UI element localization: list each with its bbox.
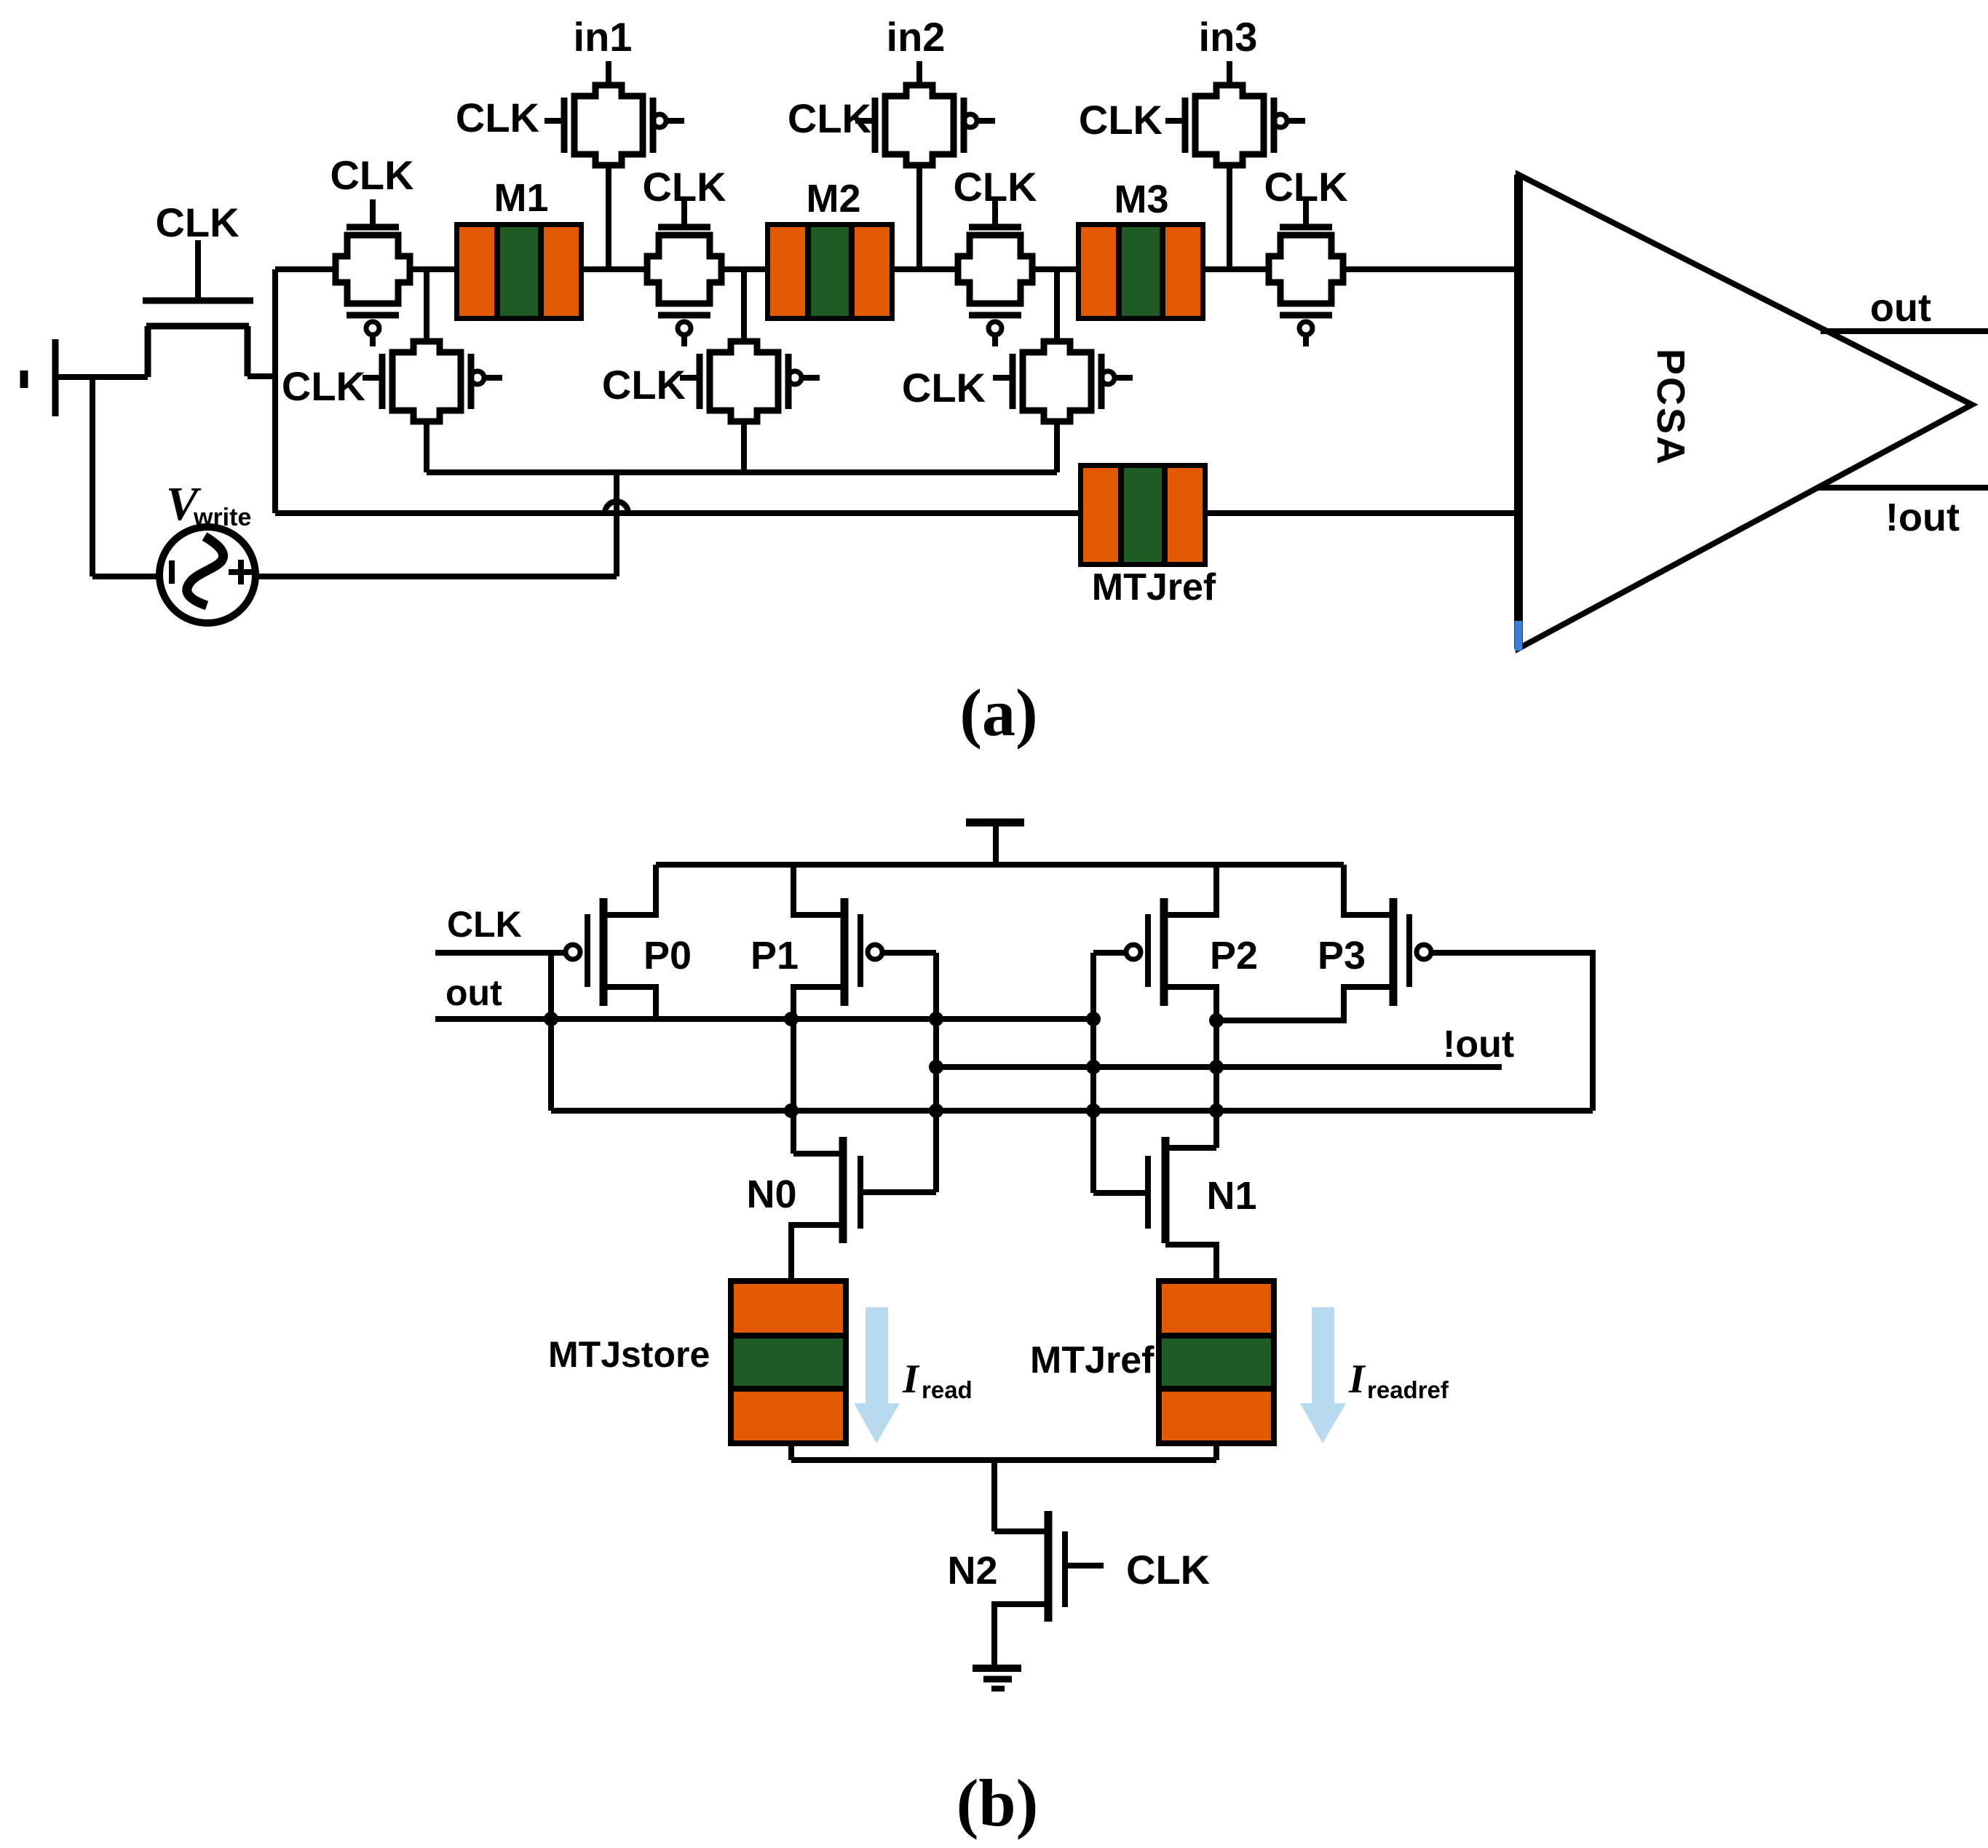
arrow Iread (blue) (854, 1307, 900, 1443)
wire net CLKbus (b bus3) (551, 1108, 1593, 1114)
svg-text:in2: in2 (887, 14, 946, 60)
wire riser P2/P3 drains to net !OUT (1213, 987, 1219, 1148)
svg-text:CLK: CLK (282, 363, 365, 409)
transistor P0 (PMOS, gate CLK) (566, 898, 603, 1006)
wire riser chain to lower pass gate LPG2 (741, 269, 747, 341)
blue mark on PCSA left edge (1515, 621, 1523, 651)
wire PG2 to M2 (721, 266, 765, 272)
wire N1 source lead to MTJref (1165, 1245, 1216, 1278)
svg-text:N0: N0 (746, 1173, 796, 1216)
svg-text:in3: in3 (1199, 14, 1258, 60)
wire tail bus (b) (791, 1457, 1216, 1463)
wire hop (net B over riser) (605, 501, 628, 513)
ground symbol (973, 1668, 1021, 1689)
label Vwrite (166, 477, 251, 531)
MTJ MTJstore (b) (728, 1278, 849, 1446)
wire LPG1 to net A (424, 421, 429, 472)
svg-text:P3: P3 (1318, 934, 1366, 977)
wire Vwrite plus lead (net C) (256, 574, 617, 579)
MTJ M3 (1076, 222, 1205, 321)
wire N0 drain lead (793, 1151, 843, 1157)
wire VDD rail (b) (656, 862, 1344, 868)
MTJ M1 (454, 222, 584, 321)
label Iread (902, 1357, 973, 1403)
wire N1 gate lead (1093, 1190, 1148, 1196)
pass gate LPG2 (CLK, lower row) (680, 341, 820, 421)
junction dots (b) (544, 1012, 1224, 1118)
svg-text:(b): (b) (957, 1766, 1038, 1840)
battery cell (left supply) (24, 339, 55, 416)
wire riser P1 gate / N0 gate (net !OUT) (933, 953, 939, 1192)
wire P3 gate feedback loop (1431, 953, 1593, 1111)
wire LPG3 to net A (1054, 421, 1060, 472)
power VDD symbol (966, 822, 1024, 865)
wire PG3 to M3 (1032, 266, 1076, 272)
svg-text:M1: M1 (494, 176, 548, 220)
svg-text:!out: !out (1885, 496, 1960, 539)
wire in1 stem (606, 61, 611, 85)
MTJ M2 (765, 222, 895, 321)
svg-text:CLK: CLK (456, 95, 539, 140)
svg-text:MTJref: MTJref (1030, 1339, 1155, 1381)
svg-text:write: write (193, 504, 251, 531)
svg-text:PCSA: PCSA (1649, 349, 1692, 467)
wire in2 stem (916, 61, 922, 85)
transistor N0 (NMOS, cross-coupled) (843, 1137, 860, 1243)
transistor P3 (PMOS, gate CLK) (1393, 898, 1431, 1006)
wire riser chain to lower pass gate LPG1 (424, 269, 429, 341)
wire P0 source lead to VDD rail (603, 865, 656, 915)
wire P3 drain lead to !OUT riser (1216, 987, 1393, 1020)
svg-text:I: I (1348, 1357, 1366, 1402)
svg-text:CLK: CLK (330, 152, 413, 198)
pass gate PG4 (CLK, series chain) (1269, 199, 1343, 346)
svg-text:(a): (a) (959, 675, 1037, 750)
pass gate PG2 (CLK, series chain) (647, 199, 721, 346)
wire N2 source lead (994, 1604, 1048, 1667)
svg-text:out: out (445, 972, 502, 1013)
MTJ MTJref (a) (1078, 463, 1208, 567)
wire riser chain to lower pass gate LPG3 (1054, 269, 1060, 341)
svg-text:CLK: CLK (155, 199, 239, 245)
svg-text:readref: readref (1367, 1376, 1449, 1403)
svg-text:CLK: CLK (642, 164, 726, 210)
pass gate LPG1 (CLK, lower row) (363, 341, 502, 421)
wire MTJref bottom to tail (1213, 1445, 1219, 1460)
wire PG1 to M1 (410, 266, 454, 272)
svg-text:out: out (1870, 286, 1931, 330)
svg-text:CLK: CLK (602, 362, 686, 408)
MTJ MTJref (b) (1156, 1278, 1277, 1446)
wire Vwrite minus lead (92, 574, 162, 579)
wire P1 gate to riser (882, 950, 936, 956)
pass gate LPG3 (CLK, lower row) (993, 341, 1133, 421)
svg-text:CLK: CLK (788, 95, 871, 141)
wire N2 drain lead (994, 1528, 1048, 1534)
svg-text:CLK: CLK (902, 365, 986, 411)
svg-text:!out: !out (1443, 1023, 1514, 1066)
wire P3 source lead to VDD rail (1344, 865, 1393, 915)
wire net B (to MTJref and PCSA) (275, 510, 1078, 516)
wire N0 source lead to MTJstore (791, 1225, 843, 1278)
svg-text:CLK: CLK (953, 164, 1037, 210)
svg-text:N2: N2 (947, 1549, 997, 1593)
voltage source Vwrite (159, 527, 256, 623)
wire node column (chain start down to net B) (272, 269, 278, 513)
pass gate TG-in3 (input in3, gated by CLK) (1165, 85, 1305, 165)
svg-text:N1: N1 (1206, 1174, 1256, 1218)
svg-text:MTJref: MTJref (1092, 566, 1216, 608)
wire riser P2 gate / N1 gate (net OUT) (1090, 953, 1096, 1193)
pass gate PG1 (CLK, series chain) (336, 199, 410, 346)
svg-text:read: read (922, 1376, 973, 1403)
wire LPG2 to net A (741, 421, 747, 472)
wire P2 gate to riser (1093, 950, 1125, 956)
transistor P2 (PMOS, cross-coupled) (1126, 898, 1164, 1006)
wire N2 gate lead (1065, 1563, 1104, 1569)
svg-text:CLK: CLK (1126, 1547, 1210, 1593)
wire net !OUT (b bus2) (936, 1064, 1502, 1070)
wire net OUT (b bus1) (435, 1016, 1093, 1022)
wire MTJref to PCSA lower input (1208, 510, 1518, 516)
wire node down-left to Vwrite minus (90, 377, 95, 576)
op-amp PCSA (1518, 175, 1972, 649)
wire in3 stem (1227, 61, 1232, 85)
wire N1 drain lead (1165, 1145, 1216, 1151)
svg-text:MTJstore: MTJstore (548, 1334, 710, 1375)
wire riser net A to Vwrite plus (614, 472, 619, 576)
svg-text:P0: P0 (643, 934, 692, 977)
svg-text:P2: P2 (1210, 934, 1258, 977)
transistor M (write NMOS, gate CLK) (143, 240, 253, 377)
svg-text:M2: M2 (806, 177, 860, 221)
svg-text:I: I (902, 1357, 920, 1402)
label Ireadref (1348, 1357, 1449, 1403)
wire in1 drop to chain (606, 165, 611, 269)
wire !out (PCSA) (1817, 485, 1988, 491)
wire in2 drop to chain (916, 165, 922, 269)
wire battery to NMOS source (58, 374, 148, 380)
wire P2 drain lead down (1164, 987, 1216, 1020)
wire N0 gate lead (860, 1189, 936, 1195)
wire P2 source lead to VDD rail (1164, 865, 1216, 915)
wire net A (lower pass gate bus) (427, 469, 1057, 475)
svg-text:CLK: CLK (447, 904, 522, 945)
wire out (PCSA) (1821, 328, 1988, 334)
wire chain start (275, 266, 336, 272)
transistor N1 (NMOS, cross-coupled) (1148, 1137, 1165, 1243)
wire PG4 to PCSA input (1343, 266, 1518, 272)
wire M1 to PG2 (584, 266, 647, 272)
svg-text:in1: in1 (574, 14, 633, 60)
wire riser OUT to N0 drain (791, 1019, 796, 1154)
wire NMOS drain to node column (247, 373, 275, 379)
wire CLK input (b) (435, 950, 566, 956)
svg-text:M3: M3 (1114, 178, 1168, 221)
transistor P1 (PMOS, cross-coupled) (844, 898, 882, 1006)
svg-text:CLK: CLK (1079, 97, 1163, 143)
wire MTJstore bottom to tail (788, 1445, 794, 1460)
svg-text:CLK: CLK (1264, 164, 1347, 210)
transistor N2 (NMOS foot, gate CLK) (1048, 1511, 1065, 1622)
wire P0 drain lead to net OUT (603, 987, 656, 1019)
wire M3 to PG4 (1205, 266, 1269, 272)
svg-text:P1: P1 (751, 934, 799, 977)
wire tail to N2 drain (991, 1460, 997, 1531)
pass gate PG3 (CLK, series chain) (958, 199, 1032, 346)
wire in3 drop to chain (1227, 165, 1232, 269)
wire P1 source lead to VDD rail (793, 865, 844, 915)
pass gate TG-in2 (input in2, gated by CLK) (855, 85, 995, 165)
pass gate TG-in1 (input in1, gated by CLK) (544, 85, 684, 165)
arrow Ireadref (blue) (1300, 1307, 1346, 1443)
wire CLK riser to net CLKbus (548, 953, 554, 1111)
wire M2 to PG3 (895, 266, 958, 272)
wire P1 drain lead to net OUT (793, 987, 844, 1019)
